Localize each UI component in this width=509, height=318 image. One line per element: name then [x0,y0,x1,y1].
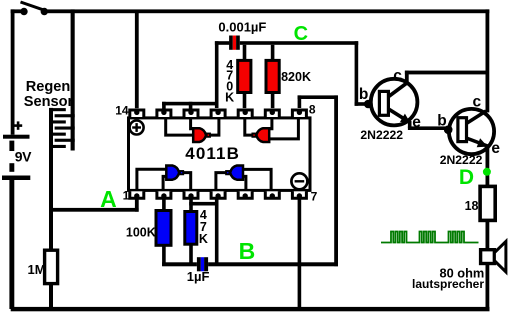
svg-text:e: e [491,140,500,157]
svg-text:4011B: 4011B [185,144,240,163]
rain sensor comb electrodes [49,108,75,212]
node C wire left segment [215,41,230,45]
resistor 1M [45,250,58,283]
gate G3 output wire to pin 3 [183,173,190,190]
resistor R2 470K [238,60,251,92]
gate G2 output wire to pin 5 [245,119,252,135]
resistor R6 18 [480,186,495,220]
NAND gate G1 red [193,128,210,142]
pin tab top 5 [238,110,252,117]
wire cap left plate down to pin 4 [215,41,219,108]
gate G2 input wire from pin 8 [269,119,298,139]
wire jumper stub to pin 2 [162,102,166,109]
transistor Q2 2N2222 [444,109,494,154]
pin tab top 4 [211,110,225,117]
wire 47K bottom [189,244,193,266]
wire 820K top stub [271,45,275,61]
wire 1M to bottom rail [49,284,53,310]
svg-text:14: 14 [115,103,129,117]
wire resistor 18 to speaker [486,220,490,249]
svg-text:B: B [239,238,256,264]
wire to Q1 base horizontal [355,102,380,106]
svg-text:Regen: Regen [26,79,71,95]
wire 470K bottom stub to pin 5 [243,93,247,109]
NAND gate G2 red mirrored [252,128,269,142]
resistor R3 820K [266,60,279,92]
battery B1 9V [2,121,30,180]
node B wire left segment [162,262,197,266]
waveform square wave green [381,232,479,243]
pin tab bottom 3 [184,191,198,198]
NAND gate G3 blue [166,166,183,180]
wire right rail vertical from top [486,9,490,112]
pin tab top 3 [184,110,198,117]
wire speaker to bottom rail [486,264,490,310]
wire Q1 emitter joint [408,121,412,128]
label 470K stacked [225,58,234,105]
svg-text:K: K [199,232,208,246]
svg-text:18: 18 [465,199,479,213]
pin tab top 2 [157,110,171,117]
wire node A to 1M [49,211,53,250]
gate G3 input wire from pin 2 [163,176,166,189]
node D green dot [483,168,491,176]
svg-text:C: C [294,23,308,45]
svg-text:1µF: 1µF [187,269,210,284]
svg-text:A: A [100,186,117,212]
wire top rail main segment [44,9,489,13]
IC minus symbol [291,173,307,189]
speaker LS1 [481,241,506,272]
svg-text:lautsprecher: lautsprecher [412,277,484,291]
wire pin 2 bottom to 100K [162,198,166,210]
wire pin 3 bottom stub [189,198,193,211]
svg-text:b: b [437,112,446,129]
IC plus symbol [130,121,144,135]
pin tab bottom 5 [238,191,252,198]
wire left rail vertical [11,9,15,134]
wire pin 4 down to node B [215,198,219,264]
pin 14 tab [130,110,144,117]
gate G2 input wire from pin 6 [269,119,272,129]
wire 820K bottom stub to pin 6 [271,93,275,109]
wire pin1 stub to node A [135,199,139,212]
resistor R5 47K [185,212,197,245]
pin tab bottom 4 [211,191,225,198]
capacitor C1 0.001uF [229,36,240,50]
pin 7 tab bottom [292,191,306,198]
pin tab bottom 6 [265,191,279,198]
switch S1 [20,2,48,15]
NAND gate G4 blue mirrored [226,166,243,180]
wire 100K bottom [162,245,166,266]
IC U1 4011B body [129,118,311,190]
svg-text:7: 7 [311,190,318,204]
wire pin 8 horizontal to B drop [298,95,338,99]
node B wire right segment [208,262,338,266]
pin tab top 6 [265,110,279,117]
resistor R4 100K [156,211,171,246]
wire top rail left segment [11,9,24,13]
wire B drop vertical [334,95,338,266]
node C wire to Q1 base vertical [355,41,359,106]
svg-text:0.001µF: 0.001µF [218,19,266,34]
svg-text:1M: 1M [28,262,46,277]
gate G1 output wire to pin 4 [210,119,219,135]
pin 8 tab [292,110,306,117]
wire pin 8 up stub [298,95,302,108]
svg-text:100K: 100K [126,225,156,239]
svg-text:Sensor: Sensor [24,94,74,110]
svg-text:2N2222: 2N2222 [360,128,403,142]
transistor Q1 2N2222 [364,79,418,126]
svg-text:c: c [473,94,482,111]
wire jumper pins 3-4 below IC [189,202,218,206]
svg-text:1: 1 [123,188,130,202]
wire Q1 emitter to Q2 base [408,126,448,130]
wire Q2 emitter down to resistor 18 [486,145,490,187]
wire jumper pins 2-3-4 above IC [162,102,218,106]
gate G4 output wire to pin 4 [216,173,226,190]
node C wire right segment [240,41,358,45]
wire jumper stub to pin 3 [189,102,193,109]
svg-text:8: 8 [309,102,316,116]
wire pin14 to top rail [135,11,139,108]
wire battery negative to bottom rail [9,180,14,309]
svg-text:9V: 9V [15,148,32,164]
svg-text:820K: 820K [281,70,311,84]
pin tab bottom 2 [157,191,171,198]
wire bottom rail [11,307,490,311]
svg-text:2N2222: 2N2222 [440,153,483,167]
gate G4 input wire from pin 5 [243,176,246,189]
gate G3 input wire from pin 1 [137,169,167,189]
wire 470K top stub [243,45,247,61]
wire Q1 collector horizontal [405,71,488,75]
svg-text:b: b [359,86,368,103]
svg-text:K: K [225,90,234,104]
gate G1 input wire from pin 3 [191,119,194,129]
wire sensor right electrode from top rail [71,9,75,150]
gate G1 input wire from pin 2 [166,119,194,135]
svg-text:c: c [393,67,402,84]
label 47K stacked [199,208,208,246]
svg-text:D: D [459,166,474,189]
gate G4 input wire from pin 6 [243,169,271,189]
capacitor C2 1uF [197,257,208,271]
wire Q1 collector vertical stub [405,71,409,85]
node A wire horizontal [49,208,139,212]
pin 1 tab bottom [130,191,144,198]
wire pin 7 to bottom rail [298,198,302,308]
